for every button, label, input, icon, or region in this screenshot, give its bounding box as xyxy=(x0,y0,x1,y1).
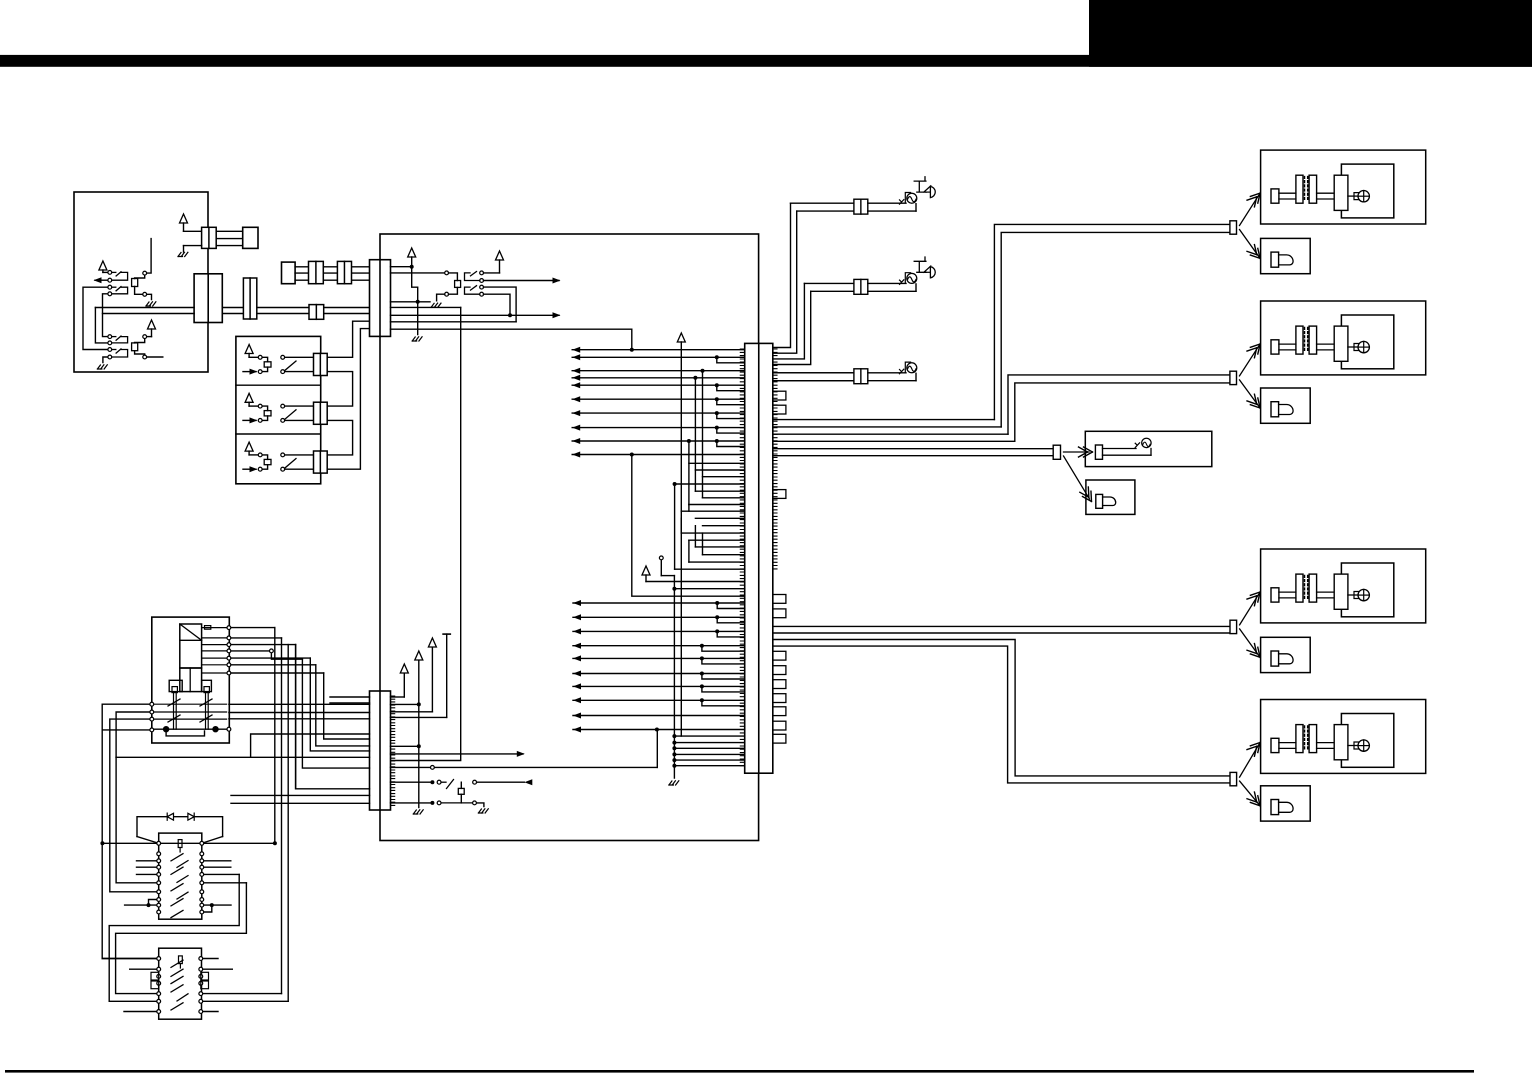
arrow to bulb box 2 xyxy=(1240,380,1261,408)
ECU internal wire y301.8 xyxy=(391,301,431,303)
inline connector to sender xyxy=(1053,445,1060,459)
horn 3: wires xyxy=(773,372,854,374)
wire bundle: column to horns xyxy=(773,203,791,347)
edge connector C on switch box xyxy=(194,274,222,323)
horn 1: inline connector xyxy=(854,199,868,214)
switch 1 bracket to switch 2 xyxy=(204,882,246,884)
switch 1 blades xyxy=(171,854,183,861)
switch group 1: power arrow xyxy=(99,261,107,270)
lamp unit 2 xyxy=(1261,301,1426,375)
ECU relay: switch hook 2 xyxy=(465,287,480,294)
ECU internal wire y272.9 to relay coil xyxy=(391,272,445,274)
lamp unit 3 xyxy=(1261,549,1426,623)
through wires flasher to switch assemblies xyxy=(274,628,276,844)
long lines into lower column bottom xyxy=(231,794,370,796)
switch 2 bottom row xyxy=(124,1011,156,1013)
contact row y767.4 long link xyxy=(391,766,431,768)
vertical x295.6 into column xyxy=(295,645,297,789)
connector A (edge of box) xyxy=(202,227,217,248)
horn 2: mast symbol xyxy=(914,257,931,272)
ECU internal wire y329.2 long xyxy=(391,329,632,350)
wire bundle: ECU lower input lines with arrows xyxy=(573,602,745,604)
vertical strand x702.5 xyxy=(701,369,705,373)
relay 3: coil xyxy=(264,459,271,464)
horn 2: horn symbol xyxy=(905,273,910,283)
horn 1: horn symbol xyxy=(905,193,910,203)
switch 1 fuse xyxy=(178,840,182,848)
arrow line y753.9 xyxy=(391,753,524,755)
ECU relay: output arrow 1 xyxy=(484,280,560,282)
switch 2 wires to risers xyxy=(203,993,281,995)
ECU relay: power arrow xyxy=(496,251,504,260)
connector column lower (ECU left edge bottom) xyxy=(370,691,391,810)
ECU long vertical wire x631.8 lower xyxy=(632,455,745,597)
wires of switch group 2 xyxy=(135,339,145,343)
inline connector H xyxy=(337,261,351,283)
switch 2 supply line xyxy=(102,958,156,960)
relay 1: connector xyxy=(314,353,328,375)
switch 1 row 905 links xyxy=(147,903,151,907)
switch 2 stubs xyxy=(130,968,157,970)
harness connector 4 xyxy=(1230,772,1237,785)
relay 3: wires to connector xyxy=(285,454,314,456)
ECU internal wire y321.8 xyxy=(391,321,517,323)
switch 2 blades xyxy=(171,960,183,967)
horn 1: wire to horn xyxy=(868,202,906,204)
switch group 2: power arrow xyxy=(148,320,156,329)
arrow to bulb box 1 xyxy=(1240,230,1261,259)
box: relay bank xyxy=(236,336,321,483)
switch group 2 link row1-row2 xyxy=(112,336,116,338)
horn 3: inline connector xyxy=(854,369,868,384)
pair to lamp group 3 xyxy=(773,625,1230,627)
switch 1 left stubs xyxy=(137,860,157,862)
relay 3: switch contacts xyxy=(281,453,285,457)
harness connector 1 xyxy=(1230,221,1237,234)
relay 3: connector xyxy=(314,451,328,473)
arrow to sender bulb xyxy=(1064,456,1090,499)
vertical x674.4 to ground xyxy=(673,576,675,778)
vertical strand x674.6 xyxy=(673,482,677,486)
arrow to sender xyxy=(1064,451,1090,453)
wires left risers in switch box xyxy=(83,287,108,349)
horn 1: wires xyxy=(791,202,854,204)
risers to lamp group 1 xyxy=(994,224,1230,419)
ECU relay: coil xyxy=(455,281,461,288)
relay 1: input arrow xyxy=(243,371,256,373)
contacts row y802.9 xyxy=(430,801,434,805)
wire from connector A down to switch 1 xyxy=(147,239,151,274)
flasher wires exiting right xyxy=(231,627,275,629)
relay 2: power arrow xyxy=(245,393,253,402)
relay 3: power arrow xyxy=(245,442,253,451)
footer rule xyxy=(5,1070,1474,1073)
switch 1 right stubs xyxy=(204,860,231,862)
horn 2: wires xyxy=(804,282,854,284)
arrow to bulb box 3 xyxy=(1240,629,1261,657)
arrow out left xyxy=(95,279,108,281)
vertical x418.8 to ground xyxy=(418,704,420,807)
flasher bottom bus xyxy=(154,728,227,730)
ECU relay: jog wire contact 3 xyxy=(484,287,517,322)
pin comb right side of right column xyxy=(773,349,777,569)
jog wire into lower column xyxy=(251,734,370,757)
relay coil lower right xyxy=(458,788,464,794)
combination switch 1: top housing with diodes xyxy=(137,817,223,837)
ECU internal wire y266.7 with power arrow xyxy=(391,266,412,268)
relay 3: input arrow xyxy=(243,468,256,470)
connector column upper (ECU left edge) xyxy=(370,260,391,337)
box: sender bulb xyxy=(1086,480,1135,514)
flasher bottom flange xyxy=(169,680,182,691)
power arrow risers right of lower column xyxy=(391,696,405,698)
inline connector E xyxy=(309,305,324,320)
relay 3: coil contacts xyxy=(258,453,262,457)
risers to lamp group 2 xyxy=(1008,375,1230,434)
switch 1 contact rows xyxy=(157,852,161,856)
horn 1: bell wire xyxy=(926,191,930,193)
riser x116 to switch assembly xyxy=(116,757,156,883)
horn 2: bell wire xyxy=(926,271,930,273)
inline connector G xyxy=(309,261,324,283)
header rule bar xyxy=(0,55,1532,67)
sender connector xyxy=(1095,445,1102,459)
arrow to lamp unit 2 xyxy=(1240,344,1261,376)
lamp unit 1 xyxy=(1261,150,1426,224)
bulb box 4 xyxy=(1261,786,1311,821)
relay 2: wires to connector xyxy=(285,405,314,407)
switch group 2 resistor xyxy=(132,343,138,351)
bulb box 3 xyxy=(1261,637,1311,672)
ECU relay: jog wire contact 4 xyxy=(484,294,511,315)
relay 2: coil xyxy=(264,411,271,416)
wires connector A to block B xyxy=(216,230,243,232)
lamp unit 4 xyxy=(1261,700,1426,774)
flasher switch stacks xyxy=(172,687,177,693)
block F (fuse link) xyxy=(282,262,296,284)
vertical strand x688.9 xyxy=(687,439,691,443)
horn 1: bell symbol xyxy=(930,187,935,198)
arrow to lamp unit 3 xyxy=(1240,592,1261,625)
pin comb left side of right column xyxy=(740,349,744,766)
bulb box 1 xyxy=(1261,238,1311,273)
diode 2 xyxy=(188,813,194,820)
horn 1: mast symbol xyxy=(914,177,931,192)
flasher right contacts xyxy=(227,626,231,630)
flasher small cap xyxy=(205,626,211,630)
wires resistor to contacts xyxy=(135,275,145,278)
flasher inner unit xyxy=(180,624,202,668)
dimmer switch 2: body xyxy=(159,948,202,1019)
block B xyxy=(243,227,258,248)
switch row y782.2 with relay xyxy=(391,781,431,783)
switch group 1 link row3-row4 xyxy=(112,286,116,288)
stub tabs on right column xyxy=(773,391,786,400)
arrow to lamp unit 1 xyxy=(1240,193,1261,225)
box: ignition switch unit xyxy=(74,192,208,372)
flasher internal wires to contacts xyxy=(202,627,227,629)
ECU internal wire y307.4 into long vertical xyxy=(391,306,461,308)
ground of switch group 1 xyxy=(147,294,152,299)
switch group 1 resistor xyxy=(132,279,138,287)
combination switch 1: body xyxy=(159,833,202,919)
relay 1: power arrow xyxy=(245,345,253,354)
triple wires F to column xyxy=(295,266,369,268)
harness connector 3 xyxy=(1230,620,1237,633)
switch 2 wing tabs xyxy=(151,972,159,980)
vertical strand x695.4 xyxy=(693,376,697,380)
wire bundle: ECU mid stack into column xyxy=(689,462,745,464)
wire bundle: ECU bottom short lines xyxy=(674,735,744,737)
supply line across switch 1 xyxy=(105,842,273,844)
arrow to bulb box 4 xyxy=(1240,781,1261,806)
sender internals xyxy=(1103,448,1137,450)
switch 2 contact rows xyxy=(157,957,161,961)
relay bank staircase wires xyxy=(327,321,369,357)
ECU relay: switch hook 1 xyxy=(465,273,480,281)
relay 2: coil contacts xyxy=(258,404,262,408)
connector column right (ECU right edge) xyxy=(745,343,773,773)
power feed jog down to ground xyxy=(412,257,418,335)
horn 3: horn symbol xyxy=(905,362,910,372)
power arrow at connector A xyxy=(180,214,188,223)
harness connector 2 xyxy=(1230,371,1237,384)
flasher left contacts xyxy=(150,702,154,706)
junction dots and hook drops on upper lines xyxy=(715,355,719,359)
ground of switch group 2 xyxy=(103,357,108,363)
horn 2: inline connector xyxy=(854,279,868,294)
switch group 1 link row1-row2 xyxy=(112,271,116,273)
wires from flasher left contacts xyxy=(102,704,159,958)
relay 2: connector xyxy=(314,402,328,424)
relay staircase into lower column xyxy=(324,673,370,739)
ground stub below connector A xyxy=(183,246,185,252)
flasher internal horizontal buses xyxy=(154,703,227,705)
header title block xyxy=(1089,0,1532,67)
pin comb right side of lower column xyxy=(391,696,395,805)
wire to connector A xyxy=(184,230,202,232)
stub line y746.3 xyxy=(391,745,419,747)
wire bundle: lines entering lower column from left xyxy=(229,703,370,705)
switch 2 fuse xyxy=(179,956,183,964)
hooks on lower lines xyxy=(715,601,719,605)
bulb box 2 xyxy=(1261,388,1311,423)
ECU relay: switch contacts xyxy=(480,271,484,275)
relay 2: input arrow xyxy=(243,419,256,421)
ECU long vertical wire x460.7 xyxy=(391,307,461,760)
relay 1: wires to connector xyxy=(285,356,314,358)
wire y729.9 to far left riser xyxy=(102,729,149,731)
box: sender unit xyxy=(1085,431,1212,466)
power arrow feed x681.3 xyxy=(677,333,685,342)
horn 2: wire to horn xyxy=(868,282,906,284)
inline connector D xyxy=(243,278,256,319)
pair to lamp group 4 xyxy=(773,640,1230,776)
relay 1: switch contacts xyxy=(281,355,285,359)
arrow to lamp unit 4 xyxy=(1240,743,1261,778)
ECU internal contact and power arrow near bottom xyxy=(659,556,663,560)
diode 1 xyxy=(167,813,173,820)
box: flasher/relay unit xyxy=(152,617,230,743)
ECU relay: ground xyxy=(437,294,445,301)
T-bar terminal xyxy=(443,633,450,635)
contact and arrow row y782.2 right xyxy=(473,780,477,784)
wire bundle: ECU to lamps bus xyxy=(773,419,995,421)
nested bracket wires xyxy=(688,505,690,512)
horn 2: bell symbol xyxy=(930,267,935,278)
relay 2: switch contacts xyxy=(281,404,285,408)
ECU relay: coil contacts xyxy=(445,271,449,275)
relay 1: coil xyxy=(264,362,271,367)
main bus pair xyxy=(95,307,194,309)
horn 3: wire to horn xyxy=(868,372,906,374)
box: main control unit (ECU) xyxy=(380,234,759,841)
switch group 1 contacts xyxy=(108,271,112,275)
switch group 2 contacts xyxy=(108,335,112,339)
wire y588.7 xyxy=(672,587,676,591)
junction on line y729.5 down to bottom wire xyxy=(655,728,659,732)
switch group 2 link row3-row4 xyxy=(112,349,116,351)
wire bundle: ECU upper input lines with arrows xyxy=(572,349,745,351)
ECU internal wire y315.3 output arrow xyxy=(391,314,560,316)
relay 1: coil contacts xyxy=(258,355,262,359)
